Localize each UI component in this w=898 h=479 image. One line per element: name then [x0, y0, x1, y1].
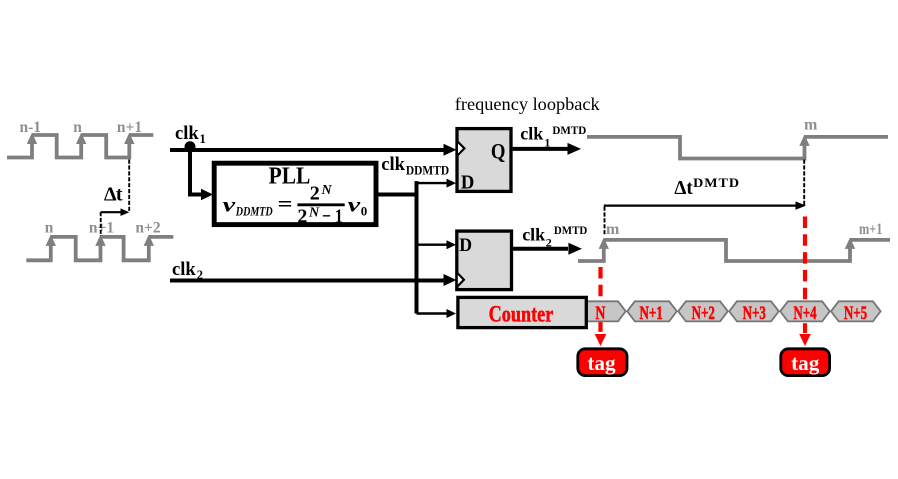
svg-text:v: v — [348, 193, 361, 217]
svg-text:2: 2 — [310, 183, 320, 205]
svg-text:N+2: N+2 — [692, 303, 715, 324]
svg-text:DMTD: DMTD — [552, 125, 586, 137]
svg-text:m: m — [804, 116, 818, 133]
svg-text:2: 2 — [297, 205, 307, 227]
svg-text:m: m — [606, 221, 620, 238]
svg-text:tag: tag — [791, 351, 820, 375]
svg-text:clk: clk — [172, 260, 196, 280]
svg-text:n+1: n+1 — [117, 119, 142, 136]
svg-text:− 1: − 1 — [322, 205, 343, 227]
svg-text:DDMTD: DDMTD — [235, 204, 273, 219]
svg-text:DDMTD: DDMTD — [406, 162, 449, 177]
svg-text:1: 1 — [544, 136, 550, 150]
svg-text:v: v — [223, 193, 236, 217]
svg-text:m+1: m+1 — [859, 221, 882, 238]
svg-text:D: D — [459, 235, 472, 256]
svg-text:N: N — [595, 303, 605, 324]
svg-text:N+5: N+5 — [844, 303, 867, 324]
svg-text:clk: clk — [522, 225, 545, 245]
svg-text:=: = — [278, 192, 293, 216]
svg-text:n: n — [45, 219, 54, 236]
svg-text:PLL: PLL — [269, 164, 311, 190]
svg-text:N: N — [321, 183, 333, 198]
svg-text:frequency loopback: frequency loopback — [455, 94, 600, 114]
svg-text:1: 1 — [200, 132, 206, 146]
svg-text:tag: tag — [587, 351, 616, 375]
svg-text:n+2: n+2 — [135, 219, 160, 236]
svg-text:n-1: n-1 — [20, 119, 42, 136]
svg-text:clk: clk — [520, 124, 543, 144]
svg-text:N+4: N+4 — [793, 303, 817, 324]
svg-text:n: n — [73, 119, 82, 136]
svg-text:Δt: Δt — [104, 184, 123, 206]
svg-text:Q: Q — [491, 138, 506, 163]
svg-text:clk: clk — [175, 124, 199, 144]
svg-text:DMTD: DMTD — [693, 176, 740, 190]
svg-text:D: D — [461, 171, 474, 193]
svg-text:DMTD: DMTD — [554, 225, 587, 237]
svg-text:Δt: Δt — [674, 177, 693, 199]
svg-text:N: N — [308, 206, 320, 221]
svg-text:2: 2 — [197, 268, 203, 282]
svg-text:N+3: N+3 — [743, 303, 766, 324]
svg-text:Counter: Counter — [489, 301, 554, 326]
svg-text:2: 2 — [546, 235, 552, 249]
svg-text:clk: clk — [381, 155, 405, 175]
svg-text:N+1: N+1 — [639, 303, 662, 324]
svg-text:0: 0 — [361, 204, 368, 219]
